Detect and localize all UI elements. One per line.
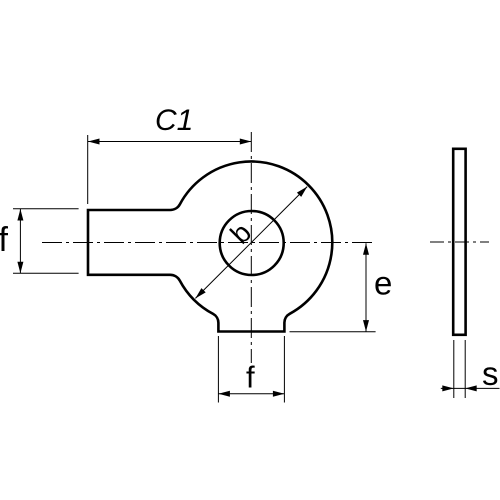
extension line f-bottom right bbox=[283, 336, 285, 403]
arrowhead s right (pointing left) bbox=[465, 385, 477, 391]
extension line f-left top bbox=[13, 208, 79, 210]
arrowhead f-bottom left bbox=[218, 391, 230, 397]
svg-text:C1: C1 bbox=[155, 104, 193, 137]
washer body outline (front view, tab washer) bbox=[88, 161, 332, 331]
extension line C1 left bbox=[87, 135, 89, 204]
dimension line e bbox=[365, 243, 367, 331]
extension line s right bbox=[464, 340, 466, 398]
arrowhead C1 right bbox=[240, 139, 252, 145]
hole circle b bbox=[220, 211, 284, 275]
horizontal centerline bbox=[42, 242, 376, 244]
svg-text:f: f bbox=[246, 360, 255, 395]
extension line e bottom bbox=[290, 331, 376, 333]
svg-text:e: e bbox=[374, 265, 392, 302]
arrowhead b lower-left bbox=[195, 288, 205, 298]
extension line s left bbox=[453, 340, 455, 398]
arrowhead f-left down bbox=[17, 262, 23, 274]
extension line f-left bottom bbox=[13, 272, 79, 274]
vertical centerline bbox=[250, 132, 252, 363]
side view centerline bbox=[430, 241, 489, 243]
arrowhead s left (pointing right) bbox=[442, 385, 454, 391]
dimension line f-bottom bbox=[218, 393, 284, 395]
arrowhead b upper-right bbox=[297, 187, 307, 197]
extension line f-bottom left bbox=[217, 336, 219, 403]
arrowhead e down bbox=[363, 320, 369, 332]
arrowhead f-bottom right bbox=[273, 391, 285, 397]
svg-text:s: s bbox=[482, 355, 499, 392]
arrowhead e up bbox=[363, 243, 369, 255]
arrowhead C1 left bbox=[88, 139, 100, 145]
dimension line b (diagonal) bbox=[195, 187, 307, 299]
dimension line C1 bbox=[88, 141, 251, 143]
svg-text:f: f bbox=[0, 221, 9, 259]
side view plate outline bbox=[453, 149, 465, 335]
arrowhead f-left up bbox=[17, 209, 23, 221]
dimension line s bbox=[441, 387, 500, 389]
dimension line f-left bbox=[19, 209, 21, 273]
